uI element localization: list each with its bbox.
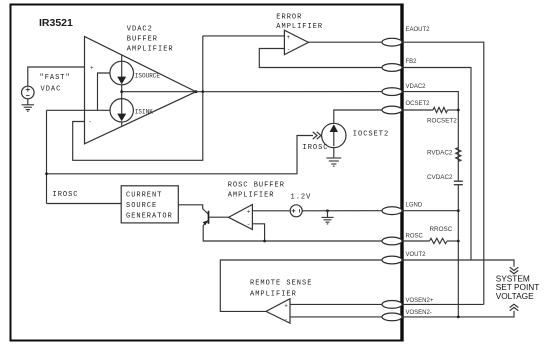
current source IOCSET2 xyxy=(322,123,346,147)
wire node down to IROSC xyxy=(46,110,48,203)
wire U1 minus feedback loop xyxy=(73,36,203,160)
svg-text:FB2: FB2 xyxy=(406,59,418,65)
pin VOSEN2+ xyxy=(382,301,402,309)
arrow up (system set point) xyxy=(510,304,519,307)
svg-text:IOCSET2: IOCSET2 xyxy=(353,131,389,139)
wire IROSC into generator xyxy=(47,203,122,205)
svg-text:ERROR: ERROR xyxy=(276,13,302,21)
svg-text:BUFFER: BUFFER xyxy=(127,36,158,44)
pin ROSC xyxy=(382,237,402,245)
svg-text:VOLTAGE: VOLTAGE xyxy=(496,291,534,301)
wire U3 plus to 1.2V xyxy=(252,210,290,212)
capacitor CVDAC2 xyxy=(454,180,463,182)
svg-text:1.2V: 1.2V xyxy=(291,193,312,201)
svg-text:CVDAC2: CVDAC2 xyxy=(427,174,453,181)
svg-text:RVDAC2: RVDAC2 xyxy=(427,150,453,157)
pin VDAC2 xyxy=(382,88,402,96)
svg-text:-: - xyxy=(284,316,288,323)
svg-text:+: + xyxy=(284,302,288,309)
wire FB2 external xyxy=(402,68,471,261)
resistor RVDAC2 xyxy=(456,148,461,162)
voltage source V2 1.2V xyxy=(290,205,302,217)
chip right edge thick xyxy=(400,4,403,342)
wire ISINK left terminal to node xyxy=(47,109,111,111)
pin LGND xyxy=(382,207,402,215)
wire VOUT2 external to arrow xyxy=(402,260,514,267)
svg-text:AMPLIFIER: AMPLIFIER xyxy=(228,191,275,199)
op-amp U1 VDAC2 buffer amplifier triangle xyxy=(85,37,197,144)
wire VOSEN2- external to arrow xyxy=(402,311,514,317)
resistor ROCSET2 xyxy=(433,107,448,112)
wire IOCSET2 top to OCSET2 pin xyxy=(334,110,392,123)
pin EAOUT2 xyxy=(382,38,402,46)
voltage source V1 "FAST" VDAC xyxy=(22,86,35,99)
svg-text:RROSC: RROSC xyxy=(430,226,453,233)
chip outline IR3521 xyxy=(11,5,403,341)
chevron input mark IROSC xyxy=(313,132,317,139)
svg-text:ROSC: ROSC xyxy=(406,233,424,239)
pin FB2 xyxy=(382,64,402,72)
svg-text:+: + xyxy=(90,65,94,72)
wire U4 plus input from VOSEN2+ xyxy=(290,303,392,305)
wire V1 bottom to ground xyxy=(27,99,29,105)
svg-text:EAOUT2: EAOUT2 xyxy=(406,27,431,33)
wire Q1 base to buffer output xyxy=(209,216,229,218)
wire U2 plus input from VDAC2 output xyxy=(203,35,285,37)
arrow down (system set point) xyxy=(510,267,519,270)
svg-text:VOSEN2-: VOSEN2- xyxy=(406,310,432,316)
svg-text:IROSC: IROSC xyxy=(53,191,79,199)
svg-text:VOSEN2+: VOSEN2+ xyxy=(406,298,434,304)
svg-text:GENERATOR: GENERATOR xyxy=(126,212,173,220)
svg-text:CURRENT: CURRENT xyxy=(126,192,162,200)
wire VDAC2 external xyxy=(402,92,458,181)
svg-text:AMPLIFIER: AMPLIFIER xyxy=(127,46,174,54)
svg-text:+: + xyxy=(287,34,291,41)
wire U2 minus input from FB2 xyxy=(259,49,392,68)
svg-text:ISINK: ISINK xyxy=(135,108,153,115)
svg-text:AMPLIFIER: AMPLIFIER xyxy=(276,23,323,31)
svg-text:ROSC BUFFER: ROSC BUFFER xyxy=(228,181,285,189)
wire Q1 emitter to ROSC xyxy=(203,225,392,241)
svg-text:+: + xyxy=(247,208,251,215)
pin OCSET2 xyxy=(382,106,402,114)
svg-text:VDAC2: VDAC2 xyxy=(406,84,427,90)
wire VOSEN2+ external xyxy=(402,303,484,305)
svg-text:IR3521: IR3521 xyxy=(39,17,73,29)
svg-text:ROCSET2: ROCSET2 xyxy=(427,117,457,124)
wire VDAC2 output xyxy=(122,91,392,93)
svg-text:VDAC2: VDAC2 xyxy=(127,26,153,34)
svg-text:-: - xyxy=(287,46,291,53)
svg-text:ISOURCE: ISOURCE xyxy=(135,72,161,79)
svg-text:AMPLIFIER: AMPLIFIER xyxy=(250,291,297,299)
svg-text:REMOTE SENSE: REMOTE SENSE xyxy=(250,279,312,287)
ground G3 on LGND wire xyxy=(327,211,329,217)
ground G2 under IOCSET2 xyxy=(326,158,341,166)
wire OCSET2 external xyxy=(402,109,433,111)
svg-text:-: - xyxy=(247,221,251,228)
wire ISOURCE left terminal xyxy=(98,73,110,110)
resistor RROSC xyxy=(430,238,448,243)
svg-text:OCSET2: OCSET2 xyxy=(406,101,431,107)
wire V2 to LGND pin xyxy=(302,210,392,212)
pin VOUT2 xyxy=(382,256,402,264)
block CURRENT SOURCE GENERATOR xyxy=(121,186,178,223)
svg-text:-: - xyxy=(88,119,92,126)
transistor Q1 xyxy=(178,205,208,214)
current source ISINK xyxy=(110,99,133,122)
current source ISOURCE xyxy=(110,61,134,85)
wire IROSC feed to IOCSET2 xyxy=(47,136,314,174)
svg-text:SOURCE: SOURCE xyxy=(126,202,157,210)
op-amp U2 error amplifier triangle xyxy=(284,30,308,54)
op-amp U3 ROSC buffer amplifier triangle xyxy=(229,205,253,230)
svg-text:LGND: LGND xyxy=(406,202,423,208)
svg-text:VOUT2: VOUT2 xyxy=(406,252,427,258)
pin VOSEN2- xyxy=(382,313,402,321)
wire LGND external xyxy=(402,210,458,212)
wire EAOUT2 external xyxy=(402,42,484,304)
svg-text:"FAST": "FAST" xyxy=(40,74,71,82)
wire IOCSET2 bottom to ground xyxy=(333,148,335,158)
svg-text:VDAC: VDAC xyxy=(41,86,62,94)
op-amp U4 remote sense amplifier triangle xyxy=(266,299,290,324)
wire U2 output to EAOUT2 xyxy=(308,41,392,43)
wire V1 top to buffer + input xyxy=(28,67,85,86)
wire ROSC external xyxy=(402,240,430,242)
svg-text:IROSC: IROSC xyxy=(303,144,329,152)
wire U3 minus feedback xyxy=(252,224,264,241)
wire U4 minus input from VOSEN2- xyxy=(290,316,392,318)
wire U4 output loop to VOUT2 xyxy=(220,260,392,311)
ground G1 under VDAC xyxy=(22,105,35,111)
